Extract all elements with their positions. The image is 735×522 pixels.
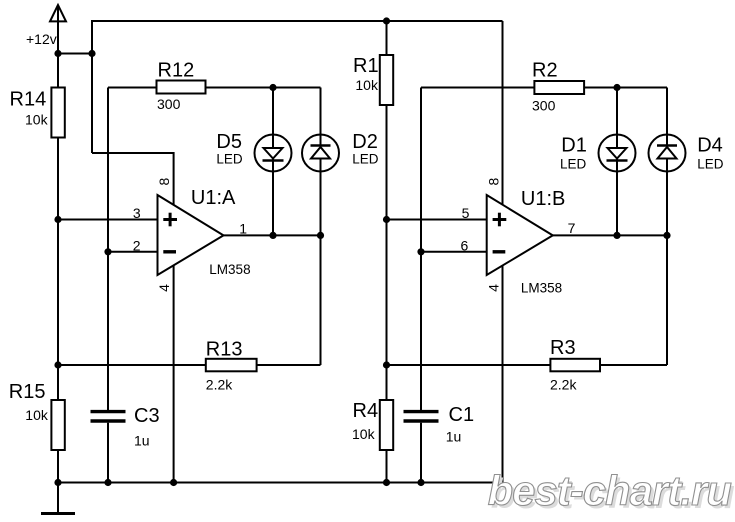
wire +12v to left rail [58,53,92,55]
wire U1:B pin5 [387,219,487,221]
ground [41,483,75,514]
svg-text:LED: LED [697,157,724,172]
svg-text:D4: D4 [697,135,723,157]
svg-text:7: 7 [568,220,576,236]
junction bottom R4 [383,479,390,486]
resistor R14 [10,54,65,220]
svg-text:10k: 10k [25,407,49,423]
wire D4/R3 column [666,88,668,366]
svg-text:5: 5 [462,205,470,221]
capacitor C3 [91,405,160,483]
wire U1:B pin6 [421,251,487,253]
wire mid rail [386,220,388,366]
junction bottom U1:A pin4 [170,479,177,486]
svg-text:6: 6 [461,238,469,254]
svg-text:300: 300 [532,98,556,114]
svg-text:8: 8 [156,177,172,185]
svg-text:R4: R4 [353,400,379,422]
svg-text:3: 3 [133,205,141,221]
resistor R15 [9,365,65,483]
wire left rail middle [57,220,59,366]
resistor R3 [387,337,668,393]
resistor R12 [108,59,321,112]
power +12v [50,5,66,54]
svg-text:10k: 10k [352,426,376,442]
svg-text:10k: 10k [25,112,49,128]
junction output D2 [317,232,324,239]
svg-text:4: 4 [156,284,172,292]
svg-text:10k: 10k [355,77,379,93]
wire U1:A pin4 [173,263,175,483]
resistor R4 [352,365,393,483]
svg-text:2: 2 [133,238,141,254]
svg-text:1u: 1u [134,433,150,449]
junction bottom C3 [104,479,111,486]
wire D2/R13 column [320,88,322,366]
junction bottom left [54,479,61,486]
svg-text:LED: LED [216,152,243,167]
svg-text:2.2k: 2.2k [550,377,577,393]
svg-text:D1: D1 [561,135,587,157]
wire D1 branch [616,88,618,236]
junction +12v node right [88,50,95,57]
wire C1 column [420,252,422,410]
svg-text:LED: LED [560,157,587,172]
op-amp U1:B [486,177,566,295]
wire pin2 column from R12 [107,88,109,252]
resistor R1 [353,21,393,220]
junction pin2 node [104,248,111,255]
op-amp U1:A [156,177,250,291]
LED D4 [649,135,724,172]
wire U1:A pin3 [58,219,158,221]
svg-text:R2: R2 [532,59,558,81]
svg-text:R3: R3 [550,337,576,359]
junction feedback A node [54,361,61,368]
svg-text:R12: R12 [158,59,195,81]
svg-text:R14: R14 [10,89,47,111]
svg-text:C3: C3 [134,405,160,427]
junction pin6 node [417,248,424,255]
junction top rail R1 tap [383,17,390,24]
wire C3 column [107,252,109,410]
svg-text:300: 300 [157,96,181,112]
svg-text:LM358: LM358 [521,281,562,296]
junction feedback B node [383,361,390,368]
svg-text:D2: D2 [352,131,378,153]
LED D2 [302,131,379,172]
junction bottom C1 [417,479,424,486]
svg-text:+12v: +12v [26,31,57,47]
svg-text:R15: R15 [9,381,46,403]
wire U1:A output pin1 [224,234,321,236]
svg-text:U1:B: U1:B [521,188,565,210]
svg-text:8: 8 [486,177,502,185]
resistor R2 [421,59,667,113]
junction pin3 node [54,216,61,223]
junction output D1 [613,232,620,239]
junction output D5 [269,232,276,239]
svg-text:D5: D5 [216,131,242,153]
capacitor C1 [404,404,475,483]
svg-text:LED: LED [352,152,379,167]
svg-text:1: 1 [239,221,247,237]
wire D5 branch [272,88,274,236]
resistor R13 [58,339,321,393]
wire U1:B pin4 [502,263,504,483]
LED D1 [560,135,636,172]
svg-text:best-chart.ru: best-chart.ru [488,467,732,514]
wire U1:B output pin7 [553,234,667,236]
wire bottom rail [58,482,503,484]
junction D5 top [269,84,276,91]
wire U1:A pin8 feed [92,153,174,207]
svg-text:LM358: LM358 [209,262,250,277]
wire pin6 column from R2 [420,88,422,252]
junction D1 top [613,84,620,91]
svg-text:1u: 1u [446,429,462,445]
watermark best-chart.ru [488,467,735,517]
junction pin5 node [383,216,390,223]
junction output D4 [663,232,670,239]
wire top supply rail [92,21,503,153]
svg-text:C1: C1 [449,404,475,426]
svg-text:2.2k: 2.2k [206,377,233,393]
svg-text:R1: R1 [353,55,379,77]
LED D5 [216,131,291,172]
svg-text:4: 4 [486,284,502,292]
junction +12v node left [54,50,61,57]
wire U1:B pin8 feed [502,21,504,207]
svg-text:R13: R13 [206,339,243,361]
svg-text:U1:A: U1:A [191,187,236,209]
wire U1:A pin2 [108,251,158,253]
